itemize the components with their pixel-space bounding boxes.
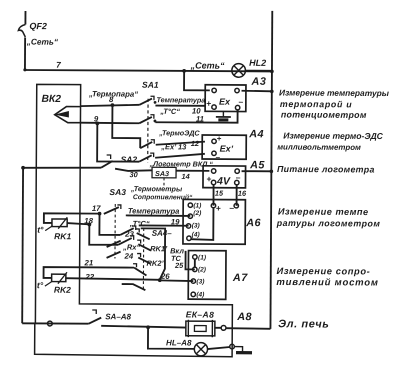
- A5 terminal TL: [211, 169, 215, 173]
- svg-text:Температура: Температура: [128, 206, 180, 215]
- A5 terminal TR: [235, 169, 239, 173]
- svg-text:„Сеть“: „Сеть“: [190, 60, 225, 70]
- A3 output wire: [242, 90, 272, 93]
- switch SA4 pole2: [138, 244, 150, 250]
- svg-text:HL2: HL2: [249, 58, 266, 68]
- junction A3-bus: [270, 90, 274, 94]
- svg-text:+: +: [216, 203, 221, 213]
- A7 terminal 1: [193, 255, 197, 259]
- switch SA3 pole2: [120, 228, 134, 235]
- A3 terminal BL: [212, 105, 216, 109]
- switch SA4 pole1: [137, 233, 150, 239]
- svg-text:t°: t°: [37, 225, 44, 235]
- A7 jumper 1-2: [194, 259, 196, 267]
- wire to SA2: [23, 167, 101, 168]
- right bus wire: [270, 11, 272, 329]
- instrument A3 box: [205, 85, 246, 112]
- svg-text:А3: А3: [251, 76, 267, 88]
- circuit breaker QF2: [24, 11, 26, 24]
- svg-text:ратуры логометром: ратуры логометром: [276, 218, 381, 229]
- instrument A7 box: [188, 251, 226, 300]
- wire lamp branch: [148, 327, 194, 349]
- svg-text:Питание логометра: Питание логометра: [277, 164, 375, 175]
- svg-text:7: 7: [56, 60, 61, 70]
- svg-text:Ex: Ex: [219, 97, 231, 107]
- junction lamp branch: [146, 325, 150, 329]
- switch SA-A8: [89, 318, 102, 324]
- wire 9: [80, 122, 139, 125]
- svg-text:26: 26: [160, 272, 170, 281]
- SA1 dashed link: [147, 99, 149, 163]
- svg-text:А6: А6: [245, 217, 261, 229]
- svg-text:„Rx“: „Rx“: [122, 243, 140, 252]
- svg-text:„Т°С“: „Т°С“: [159, 107, 180, 116]
- junction 17: [98, 212, 102, 216]
- A7 terminal 2: [193, 267, 197, 271]
- wire 13: [155, 154, 205, 158]
- switch SA4 pole3: [138, 258, 150, 264]
- junction 18: [87, 223, 91, 227]
- svg-text:–: –: [236, 172, 241, 182]
- svg-text:30: 30: [130, 170, 138, 179]
- left bus lower: [21, 168, 24, 323]
- wire drop 18b: [89, 224, 118, 244]
- terminal circle bottom: [47, 321, 52, 326]
- wire 19: [139, 224, 189, 226]
- svg-text:16: 16: [238, 189, 247, 198]
- A6 terminal 2: [188, 214, 192, 218]
- switch arm 22: [122, 284, 146, 290]
- svg-text:(4): (4): [192, 231, 200, 238]
- svg-text:Эл. печь: Эл. печь: [278, 318, 329, 330]
- svg-text:„Ex’ 13: „Ex’ 13: [160, 142, 187, 151]
- wire to A3 +: [184, 71, 210, 90]
- resistor RK1: [44, 213, 100, 223]
- svg-text:(2): (2): [193, 210, 201, 217]
- A6 terminal -: [234, 204, 238, 208]
- wire 12: [156, 141, 205, 145]
- svg-text:SA3: SA3: [155, 169, 169, 178]
- wire drop 12: [112, 105, 140, 148]
- junction bus-top wire: [270, 70, 274, 74]
- A6 terminal 1: [188, 203, 192, 207]
- wire 25: [185, 251, 194, 269]
- svg-text:А8: А8: [236, 311, 252, 323]
- wire lamp to edge: [208, 347, 230, 349]
- A4 terminal +: [212, 139, 216, 143]
- junction 8: [111, 103, 115, 107]
- svg-text:RK1’: RK1’: [150, 244, 168, 253]
- wire 30: [115, 169, 152, 171]
- instrument A4 box: [202, 135, 246, 159]
- svg-text:тивлений мостом: тивлений мостом: [276, 277, 378, 289]
- svg-text:SA4–: SA4–: [152, 229, 173, 238]
- switch SA2: [101, 161, 113, 168]
- svg-text:Измерение темпе: Измерение темпе: [278, 206, 369, 217]
- A7 terminal 4: [191, 292, 195, 296]
- lamp HL-A8: [194, 343, 207, 356]
- wire SA4 top: [140, 228, 165, 279]
- svg-text:Измерение температуры: Измерение температуры: [279, 87, 389, 98]
- EK right terminal: [221, 325, 226, 330]
- junction 9: [95, 122, 99, 126]
- svg-text:(1): (1): [193, 202, 201, 209]
- A6 terminal +: [211, 203, 215, 207]
- A3 terminal BR: [235, 105, 239, 109]
- SA3 dashed drop: [163, 178, 165, 187]
- svg-text:А4: А4: [248, 128, 264, 140]
- A5 terminal BR: [235, 180, 239, 184]
- furnace enclosure: [35, 84, 234, 356]
- wire 21: [44, 267, 135, 278]
- A7 terminal 3: [191, 279, 195, 283]
- svg-text:HL–А8: HL–А8: [166, 338, 192, 347]
- svg-text:+: +: [206, 98, 211, 108]
- svg-text:SA3: SA3: [109, 187, 126, 197]
- SA3 dashed link: [114, 204, 116, 258]
- wire Температура A6: [126, 214, 191, 217]
- switch SA1 pole2: [139, 117, 152, 123]
- svg-text:потенциометром: потенциометром: [281, 109, 367, 119]
- svg-text:11: 11: [196, 114, 204, 123]
- A6 internal jumper: [191, 208, 213, 240]
- svg-text:(3): (3): [192, 222, 200, 229]
- svg-text:термопарой и: термопарой и: [280, 99, 352, 109]
- svg-text:SA2: SA2: [121, 154, 138, 164]
- wire 10: [155, 105, 205, 107]
- svg-text:–: –: [229, 203, 234, 213]
- A3 terminal TR: [235, 88, 239, 92]
- ground at A3: [222, 111, 224, 116]
- heater EK-A8: [186, 321, 215, 336]
- svg-text:(2): (2): [198, 267, 206, 274]
- svg-text:(4): (4): [196, 291, 204, 298]
- svg-text:„ТермоЭДС: „ТермоЭДС: [158, 128, 200, 137]
- wire 8: [81, 105, 140, 107]
- wire bus to EK: [226, 327, 271, 330]
- wire drop 13: [97, 123, 139, 161]
- svg-text:(1): (1): [198, 255, 206, 262]
- lamp HL2: [245, 69, 271, 71]
- svg-text:А5: А5: [249, 159, 265, 171]
- wire drop 17b: [99, 214, 120, 235]
- switch arm a: [107, 241, 121, 247]
- svg-text:SA1: SA1: [142, 80, 159, 90]
- svg-text:+: +: [206, 174, 211, 184]
- wire 14: [176, 170, 209, 172]
- junction riser: [182, 69, 186, 73]
- A4 terminal -: [212, 151, 216, 155]
- svg-text:„Т°С“: „Т°С“: [129, 219, 150, 228]
- instrument A6 box: [183, 199, 245, 244]
- svg-text:15: 15: [215, 189, 224, 198]
- instrument A5 box: [203, 166, 246, 188]
- switch arm b: [107, 252, 121, 258]
- SA4 dashed link: [142, 228, 144, 289]
- svg-text:А7: А7: [232, 272, 248, 284]
- A6 terminal 3: [186, 224, 190, 228]
- svg-text:–: –: [238, 97, 243, 107]
- A6 terminal 4: [187, 236, 191, 240]
- svg-text:4V: 4V: [216, 175, 231, 187]
- svg-text:–: –: [216, 153, 221, 162]
- ground bottom: [234, 347, 242, 352]
- svg-text:+: +: [217, 134, 222, 143]
- A5 output wire: [242, 170, 272, 172]
- svg-text:Температура: Температура: [156, 95, 205, 104]
- switch SA3 pole1: [104, 207, 119, 214]
- wire 26: [160, 279, 194, 282]
- bottom wire: [22, 322, 88, 324]
- svg-text:(3): (3): [196, 278, 204, 285]
- junction 26: [158, 278, 162, 282]
- svg-text:12: 12: [191, 139, 200, 148]
- svg-text:14: 14: [182, 172, 190, 181]
- A5 terminal BL: [211, 180, 215, 184]
- push button SA3 box: [152, 167, 176, 178]
- svg-text:24: 24: [124, 252, 134, 261]
- svg-text:9: 9: [94, 114, 99, 123]
- wire to EK: [101, 326, 186, 328]
- svg-text:23: 23: [124, 230, 134, 239]
- svg-text:„Термометры: „Термометры: [130, 184, 183, 193]
- svg-text:Ex’: Ex’: [220, 144, 234, 154]
- wire 11: [155, 109, 237, 122]
- svg-text:„Термопара“: „Термопара“: [88, 89, 138, 98]
- A3 terminal TL: [212, 88, 216, 92]
- junction top-left corner: [23, 68, 26, 71]
- svg-text:ВК2: ВК2: [41, 94, 61, 105]
- svg-text:милливольтметром: милливольтметром: [277, 142, 361, 151]
- thermocouple BK2: [55, 106, 81, 122]
- svg-text:Измерение сопро-: Измерение сопро-: [276, 266, 370, 277]
- wire 7 (top bus): [24, 70, 272, 71]
- wire 16: [236, 184, 238, 205]
- svg-text:„Сеть“: „Сеть“: [26, 37, 59, 47]
- junction A5-bus: [270, 170, 274, 174]
- switch SA1 pole4: [139, 155, 152, 161]
- switch SA1 pole1: [139, 98, 152, 104]
- junction left bus: [21, 166, 25, 170]
- svg-text:SA–А8: SA–А8: [105, 312, 131, 321]
- svg-text:QF2: QF2: [29, 21, 47, 31]
- svg-text:22: 22: [84, 272, 94, 281]
- svg-text:17: 17: [92, 204, 101, 213]
- switch arm 21: [134, 268, 146, 276]
- terminal circle A8 edge: [230, 344, 235, 349]
- svg-text:RK1: RK1: [54, 231, 71, 241]
- svg-text:t°: t°: [37, 280, 44, 290]
- resistor RK2: [52, 274, 66, 281]
- wire 15: [212, 184, 214, 205]
- switch SA3 pole3: [118, 238, 132, 245]
- svg-text:ЕК–А8: ЕК–А8: [186, 309, 215, 319]
- svg-text:25: 25: [174, 261, 184, 270]
- svg-text:21: 21: [84, 258, 94, 267]
- svg-text:19: 19: [171, 217, 180, 226]
- svg-text:Измерение термо-ЭДС: Измерение термо-ЭДС: [283, 130, 383, 141]
- svg-text:RK2: RK2: [54, 285, 71, 295]
- switch SA1 pole3: [140, 142, 152, 148]
